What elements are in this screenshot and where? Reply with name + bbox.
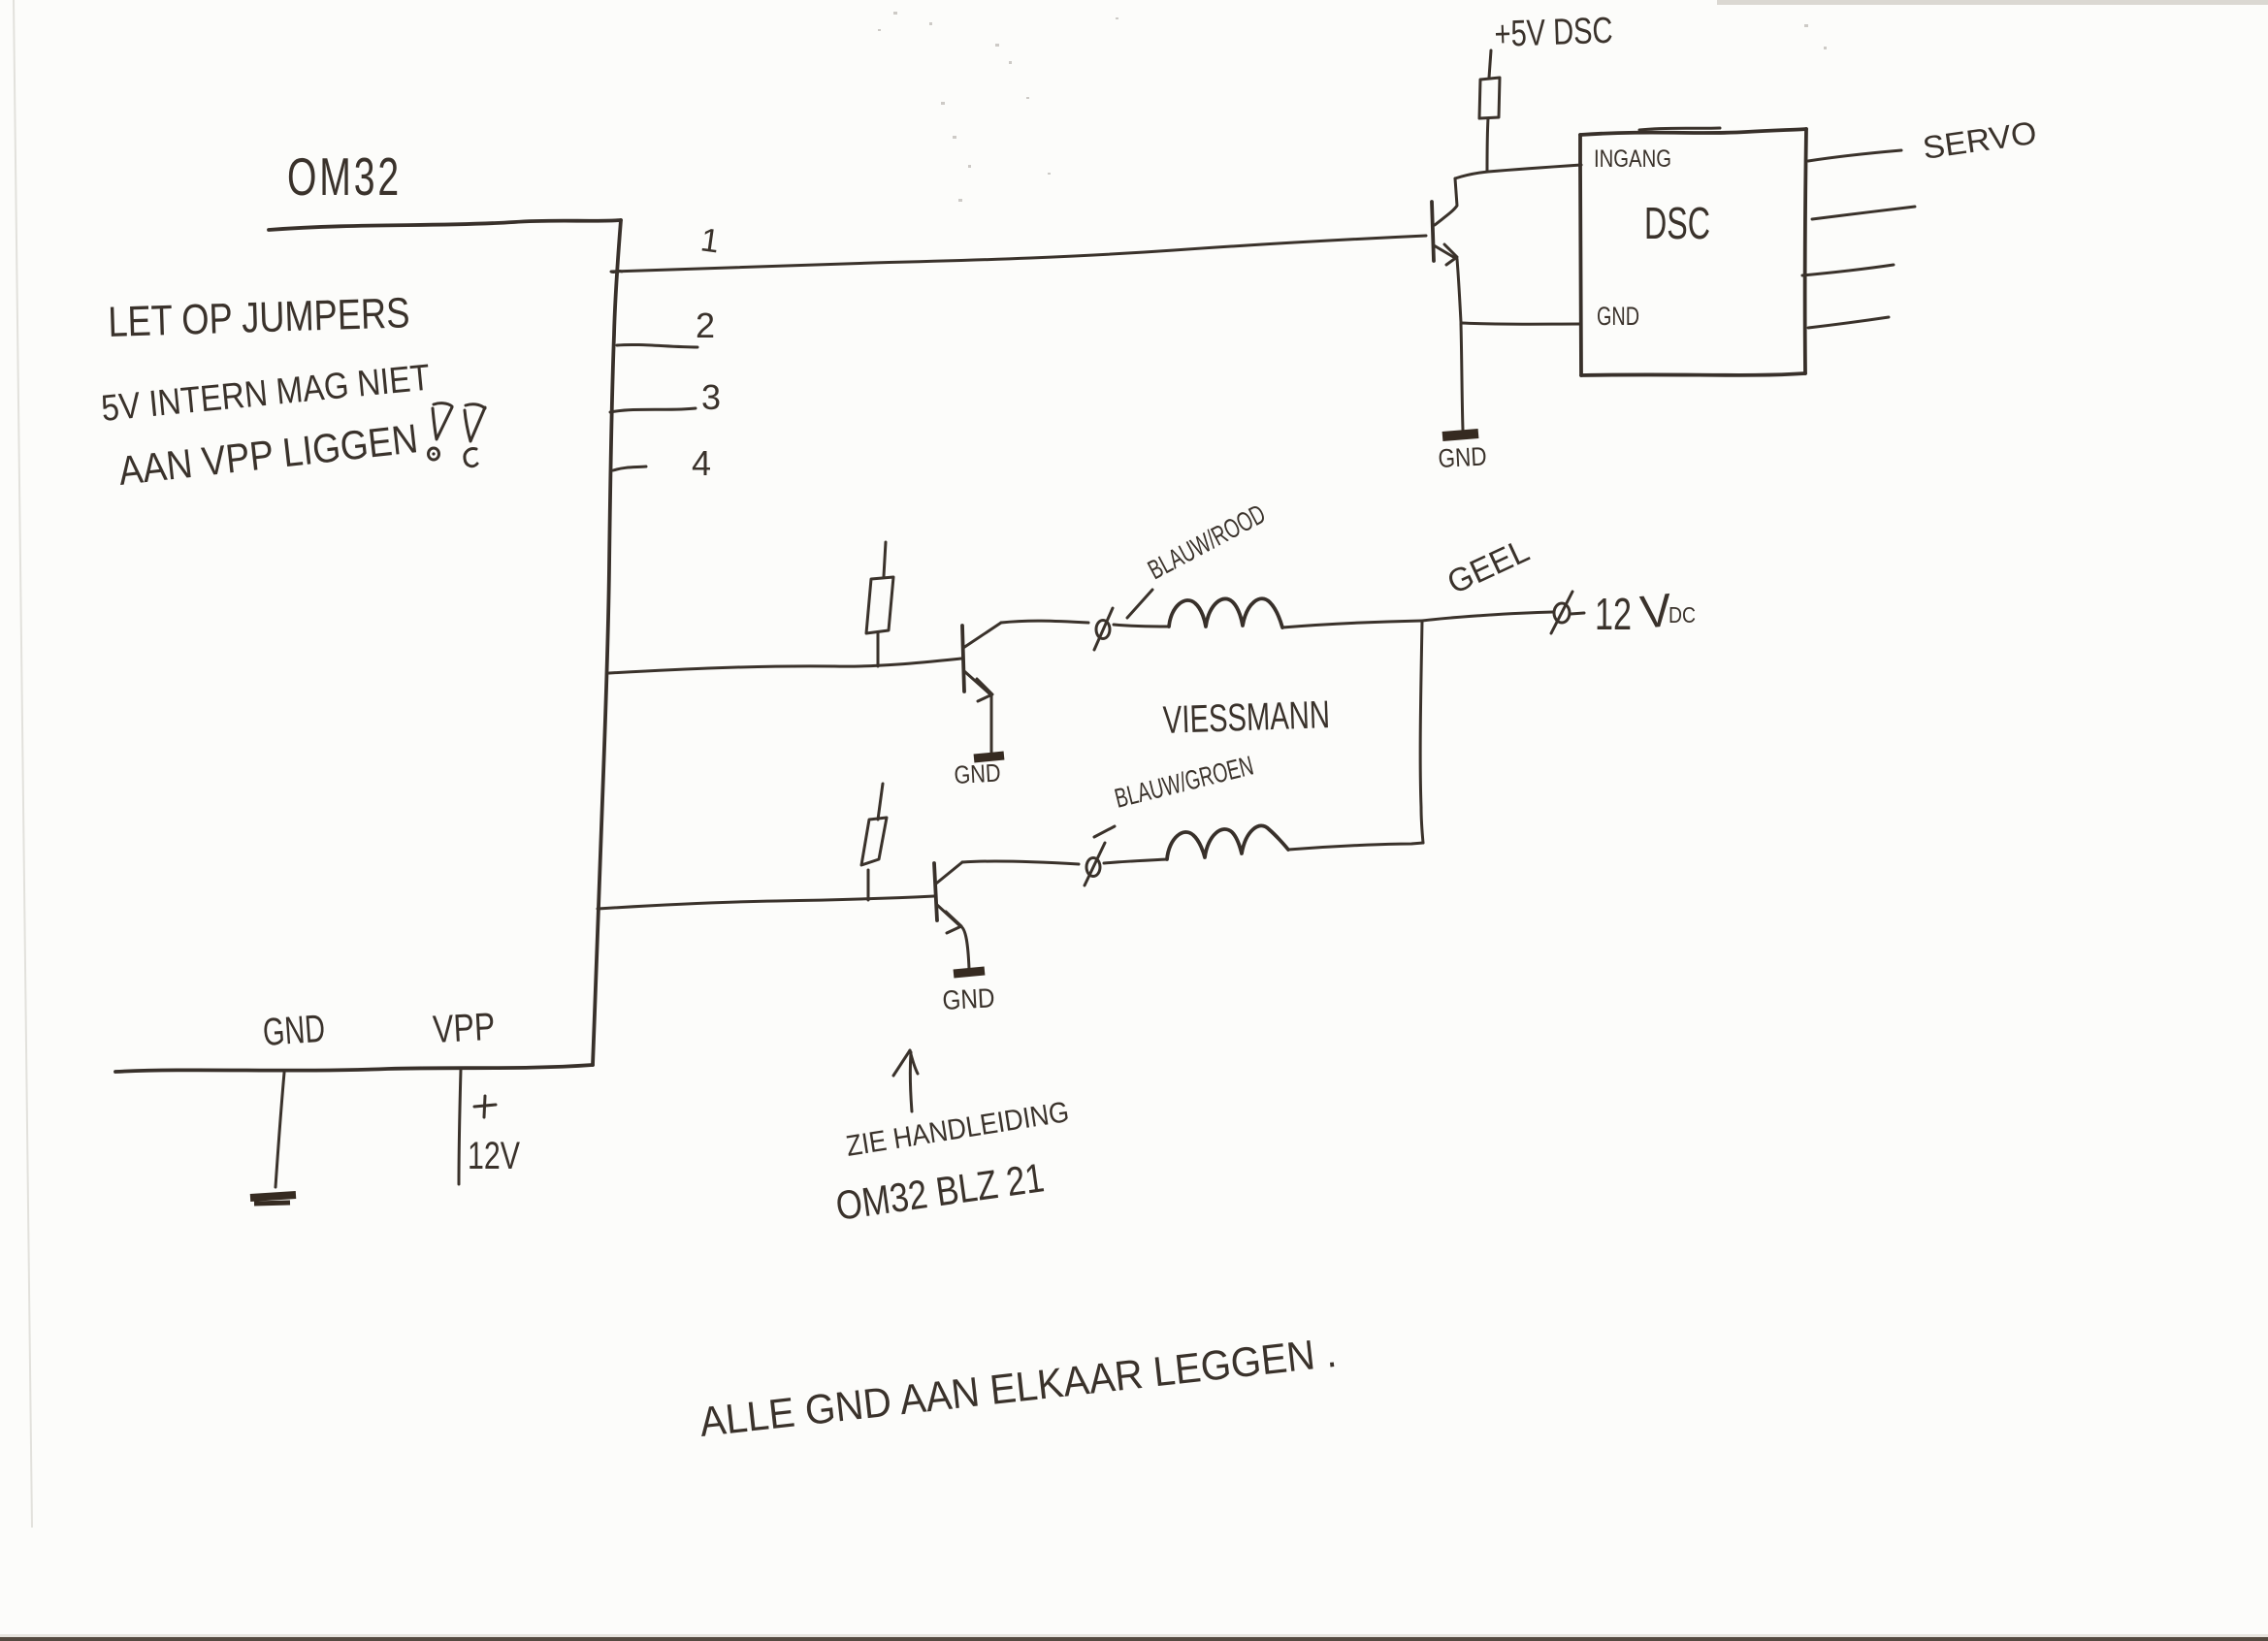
wire emitter node to DSC GND [1461, 323, 1581, 324]
wire Q2 emitter to ground [990, 695, 993, 754]
svg-text:INGANG: INGANG [1594, 145, 1671, 173]
jumper J1 symbol [429, 403, 453, 460]
svg-text:12V: 12V [468, 1135, 520, 1177]
tick to BLAUW/GROEN label [1094, 826, 1115, 837]
wire OM32 pin to Q2 base [609, 659, 961, 673]
wire Q2 collector to connector [1001, 621, 1088, 623]
DSC output wire 1 [1808, 150, 1901, 161]
svg-text:GND: GND [942, 982, 996, 1015]
svg-text:DSC: DSC [1644, 198, 1710, 248]
svg-text:DC: DC [1669, 602, 1696, 627]
svg-text:12: 12 [1595, 589, 1632, 639]
DSC output wire 4 [1808, 317, 1889, 328]
transistor Q3 [934, 862, 962, 933]
svg-text:GND: GND [954, 758, 1002, 789]
transistor Q1 [1432, 178, 1457, 265]
svg-text:LET OP JUMPERS: LET OP JUMPERS [108, 289, 410, 346]
wire L2 to right bus [1288, 843, 1423, 850]
pin 3 stub [610, 408, 696, 412]
wire VPP down [459, 1070, 461, 1184]
connector blauw/groen [1085, 843, 1105, 885]
svg-text:GND: GND [1597, 302, 1639, 331]
pin 2 stub [617, 344, 697, 347]
resistor R2 [866, 577, 893, 633]
svg-text:2: 2 [696, 306, 715, 345]
resistor R3 stub below [867, 870, 870, 900]
wire L1 to 12V node [1282, 621, 1422, 627]
connector 12V [1551, 592, 1584, 633]
resistor R2 stub below [877, 633, 880, 666]
svg-text:GND: GND [1438, 441, 1488, 473]
tick to BLAUW/ROOD label [1127, 590, 1152, 618]
resistor R3 stub above [878, 784, 883, 820]
wire R1 to collector node [1487, 118, 1488, 172]
wire connector to L2 [1104, 859, 1167, 863]
resistor R2 stub above [884, 542, 886, 576]
ground GND (top) [1438, 434, 1488, 473]
svg-text:VIESSMANN: VIESSMANN [1162, 693, 1330, 742]
wire +5V to R1 [1489, 50, 1491, 78]
resistor R1 [1479, 78, 1500, 118]
wire emitter node to ground [1461, 324, 1463, 430]
svg-text:4: 4 [692, 443, 711, 483]
wire Q1 collector to DSC INGANG [1455, 165, 1581, 178]
transistor Q2 [962, 623, 1001, 701]
ground GND (Q3) [942, 971, 996, 1015]
svg-text:3: 3 [701, 377, 721, 417]
wire OM32 pin to Q3 base [598, 896, 934, 909]
svg-text:GND: GND [262, 1008, 327, 1054]
OM32 module outline [115, 220, 621, 1072]
ground GND (Q2) [954, 756, 1004, 789]
wire GND pin down [275, 1073, 284, 1187]
wire right bus vertical [1420, 621, 1423, 843]
svg-text:OM32: OM32 [287, 146, 402, 207]
label 12 VDC [1595, 585, 1696, 639]
inductor L1 [1169, 598, 1282, 627]
pin 1 wire [611, 236, 1426, 273]
wire 12V feed [1422, 612, 1553, 621]
DSC output wire 2 [1812, 207, 1915, 219]
inductor L2 [1167, 825, 1288, 859]
resistor R3 [861, 818, 887, 865]
arrow (zie handleiding) [893, 1050, 918, 1111]
connector blauw/rood [1094, 608, 1113, 650]
DSC output wire 3 [1802, 265, 1894, 275]
pin 4 stub [613, 467, 646, 470]
svg-text:VPP: VPP [432, 1006, 496, 1051]
jumper J2 symbol [465, 404, 485, 467]
label + (12V) [474, 1096, 496, 1117]
ground symbol (bottom) [250, 1195, 296, 1204]
wire Q3 collector to connector [962, 861, 1079, 864]
IC DSC box [1580, 128, 1806, 375]
wire connector to L1 [1114, 625, 1169, 627]
wire Q1 emitter down [1457, 259, 1461, 322]
svg-text:+5V DSC: +5V DSC [1494, 11, 1613, 55]
wire Q3 emitter to ground [960, 926, 969, 969]
